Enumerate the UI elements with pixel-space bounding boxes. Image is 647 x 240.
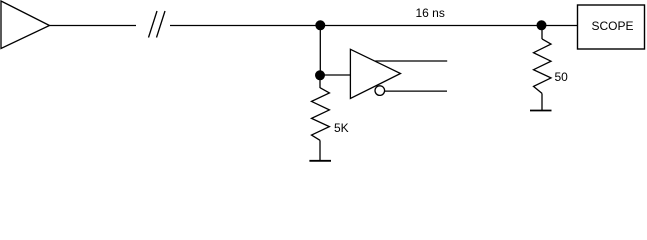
svg-text:5K: 5K: [334, 121, 349, 135]
driver U1 (buffer triangle): [1, 1, 50, 49]
wire: complement output of U2: [385, 90, 447, 92]
ground (below 5K): [309, 160, 331, 162]
node: junction J2 at gate input and 5K resistor: [315, 70, 325, 80]
wire: J3 down to 50 ohm resistor: [541, 25, 543, 39]
svg-text:SCOPE: SCOPE: [592, 19, 634, 33]
resistor R2 50: [534, 39, 552, 94]
transmission line break symbol (double slash): [149, 11, 166, 38]
wire: 5K resistor to ground: [319, 140, 321, 161]
node: junction J3 at 50 ohm tap: [537, 20, 547, 30]
wire: driver output to transmission-line break: [50, 25, 137, 27]
resistor R1 5K: [312, 88, 330, 141]
wire: 50 ohm resistor to ground: [541, 93, 543, 110]
ground (below 50): [530, 110, 552, 112]
receiver U2 (gate triangle): [350, 49, 400, 98]
wire: J2 to gate input: [320, 74, 350, 76]
inverting bubble on U2 complement output: [375, 86, 385, 96]
svg-text:50: 50: [555, 70, 569, 84]
scope box: [578, 5, 645, 49]
svg-text:16 ns: 16 ns: [416, 6, 445, 20]
wire: J2 down to 5K resistor: [319, 75, 321, 88]
node: junction J1 on main line: [315, 20, 325, 30]
wire: vertical tap from J1 down to J2: [319, 25, 321, 75]
wire: main line from break to scope box: [170, 25, 578, 27]
wire: true output of U2: [375, 60, 447, 62]
